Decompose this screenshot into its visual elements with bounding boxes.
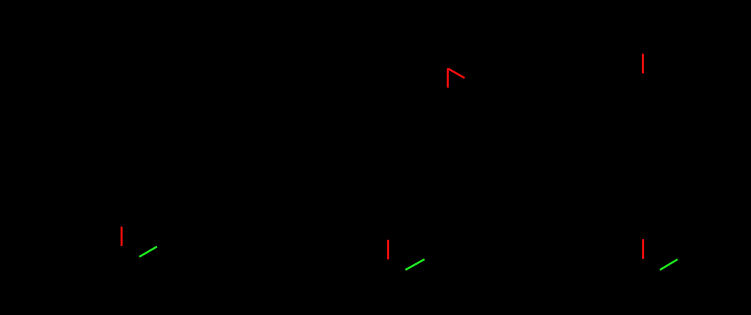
- molecule 2: C-Cl bond, Cl-side half (green), diagonal: [405, 259, 424, 270]
- molecule 1: C-Cl bond, Cl-side half (green), diagonal: [139, 247, 157, 257]
- molecule 3: C-O bond, O-side half (red), vertical, bottom: [642, 239, 644, 259]
- molecule 1: C-O bond, O-side half (red), vertical: [121, 227, 123, 246]
- molecule 2: C-O bond, O-side half (red), vertical: [387, 240, 389, 260]
- molecule 2: ether O apex, downward bond O-half (red), vertical: [447, 68, 449, 87]
- molecule 3: C-O bond, O-side half (red), vertical, top: [642, 54, 644, 74]
- molecule 2: ether O apex, down-right bond O-half (red), diagonal: [448, 69, 464, 78]
- molecule 3: C-Cl bond, Cl-side half (green), diagonal: [660, 259, 678, 270]
